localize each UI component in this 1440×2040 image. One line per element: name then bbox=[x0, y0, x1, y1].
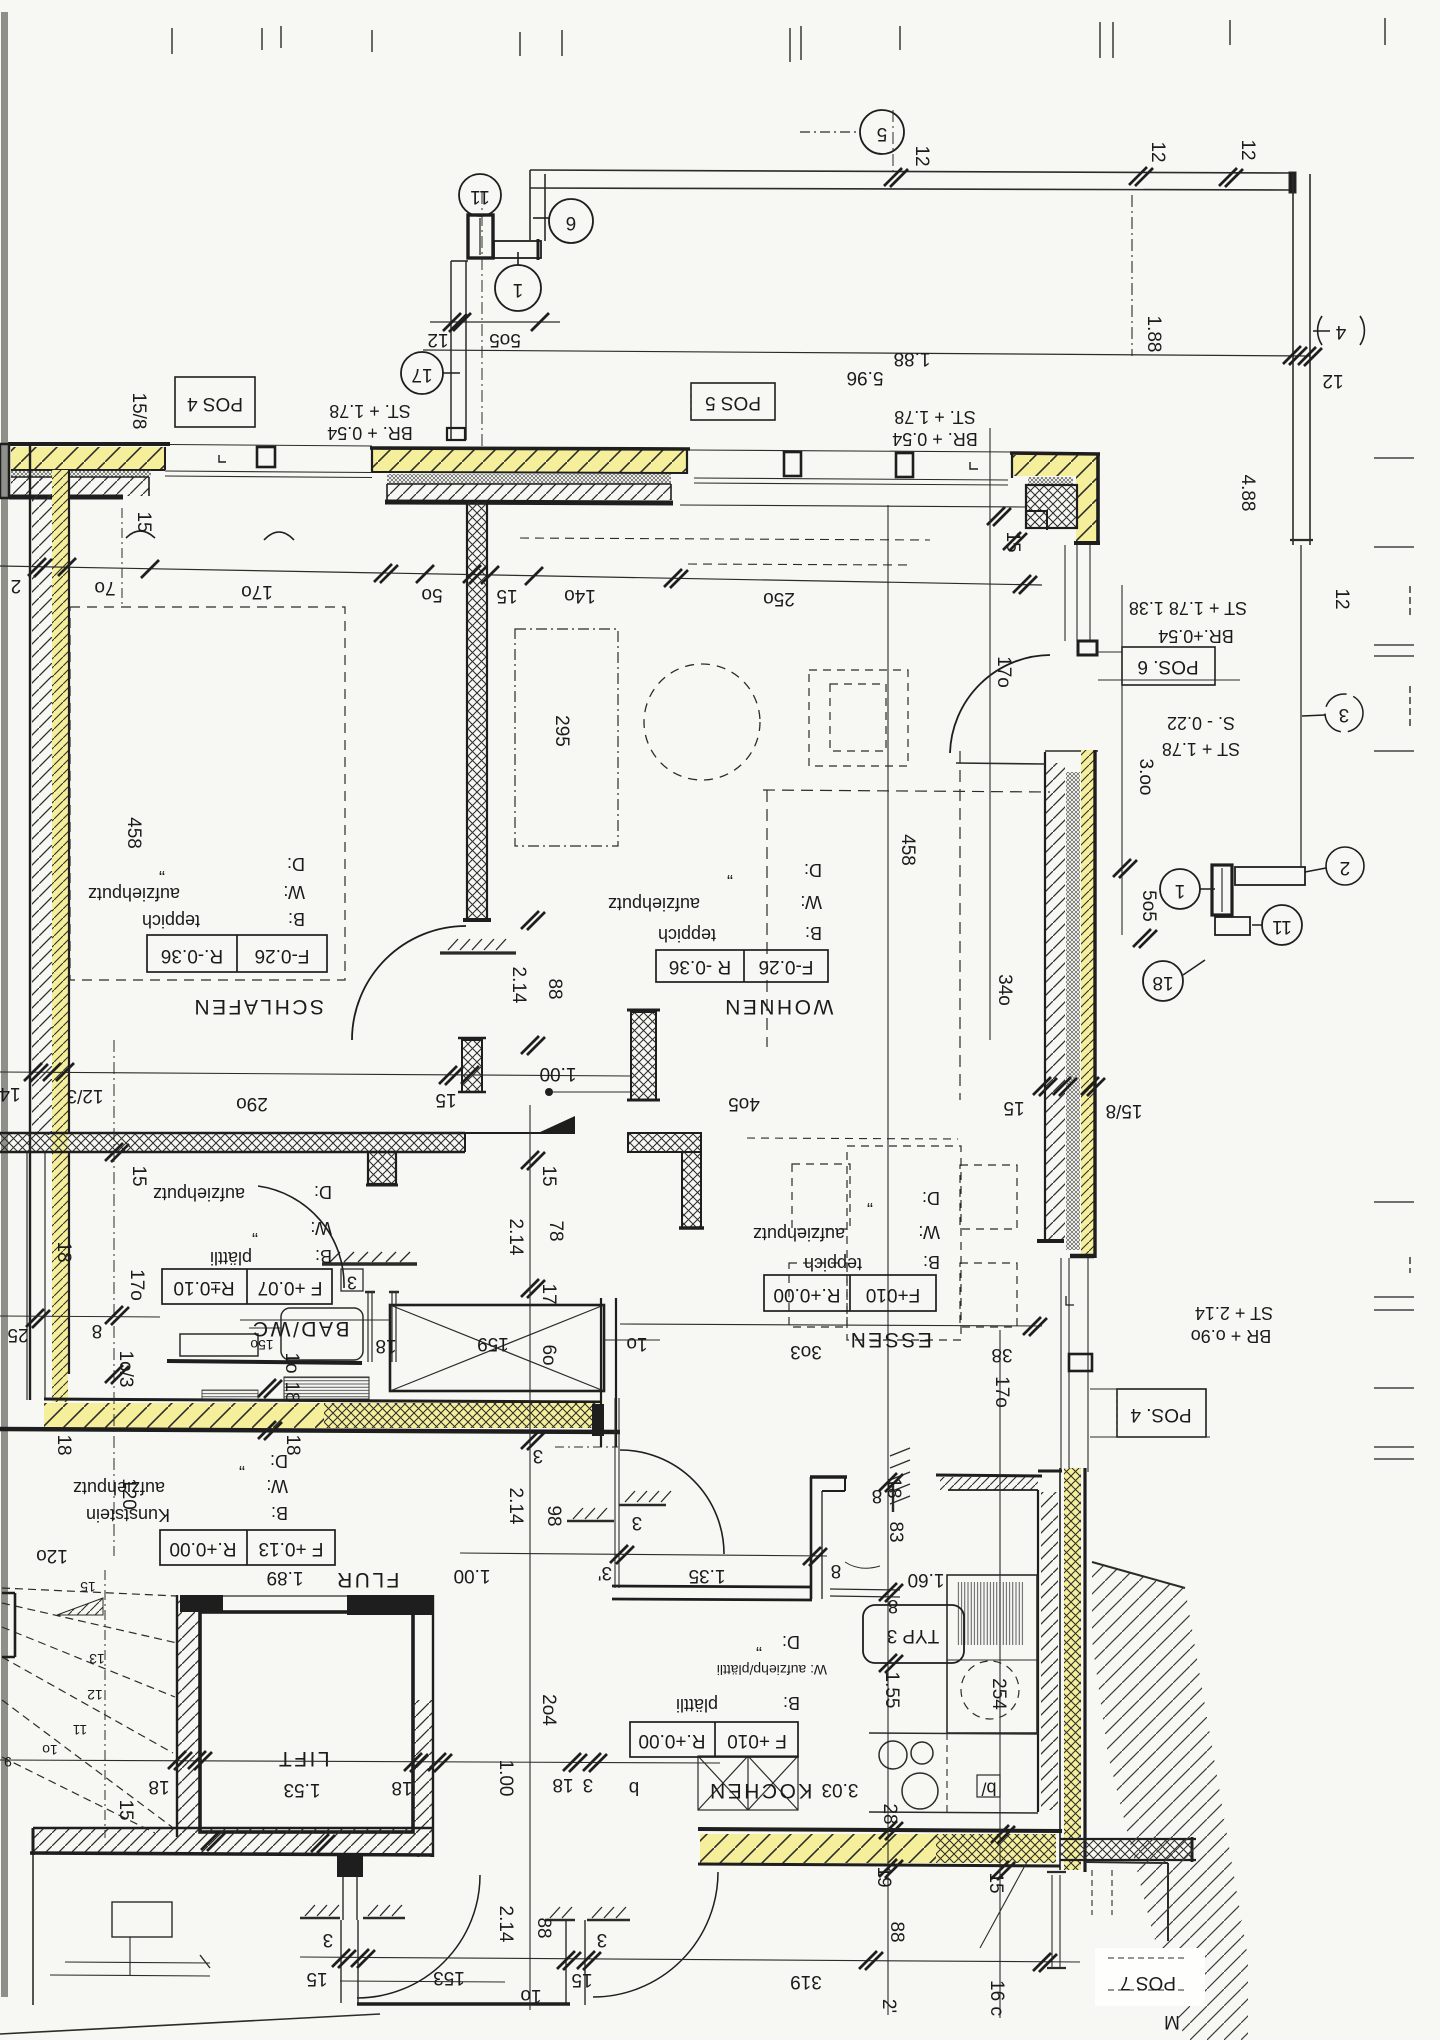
svg-text:TYP 3: TYP 3 bbox=[887, 1625, 939, 1646]
stair step numbers bbox=[4, 1579, 105, 1770]
POS 7 dashed bbox=[1108, 1958, 1188, 1990]
svg-text:5.96: 5.96 bbox=[847, 367, 884, 388]
crosshatch corner extension SE bbox=[1060, 1837, 1196, 1941]
svg-text:4.88: 4.88 bbox=[1237, 475, 1258, 512]
bottom door jambs bbox=[341, 1920, 585, 2005]
svg-text:F +010: F +010 bbox=[727, 1730, 787, 1751]
circle 1 right bbox=[1160, 869, 1200, 909]
458 dim WOHNEN bbox=[887, 505, 889, 2015]
svg-text:17: 17 bbox=[538, 1283, 559, 1304]
svg-text:D:: D: bbox=[922, 1188, 940, 1208]
svg-text:W:: W: bbox=[283, 882, 305, 902]
svg-text:W:: W: bbox=[918, 1222, 940, 1242]
svg-text:1: 1 bbox=[1175, 880, 1186, 901]
corridor door arc bbox=[620, 1450, 724, 1554]
svg-text:aufziehputz: aufziehputz bbox=[153, 1184, 245, 1204]
stair direction mark bbox=[57, 1598, 103, 1615]
BAD door jambs bbox=[365, 1292, 399, 1362]
svg-text:M: M bbox=[1164, 2011, 1180, 2032]
svg-text:12: 12 bbox=[1322, 370, 1343, 391]
svg-text:F +0.13: F +0.13 bbox=[259, 1538, 324, 1559]
schlafen door arc bbox=[352, 926, 466, 1040]
svg-text:”: ” bbox=[756, 1634, 762, 1654]
svg-text:”: ” bbox=[239, 1453, 245, 1473]
corner mark 2 bbox=[970, 462, 978, 469]
diagonal leader bottom bbox=[980, 1860, 1028, 1948]
svg-text:ESSEN: ESSEN bbox=[848, 1328, 932, 1351]
svg-text:458: 458 bbox=[123, 817, 144, 849]
svg-text:aufziehputz: aufziehputz bbox=[88, 884, 180, 904]
circle 3 right bbox=[1325, 694, 1363, 732]
door opening sill line bbox=[1045, 750, 1098, 752]
svg-text:POS 5: POS 5 bbox=[705, 392, 761, 413]
svg-text:WOHNEN: WOHNEN bbox=[723, 995, 834, 1018]
door frame below corner bbox=[1065, 545, 1090, 641]
window band east bbox=[1061, 1258, 1088, 1472]
svg-text:aufziehputz: aufziehputz bbox=[73, 1478, 165, 1498]
POS 4 box top-left bbox=[175, 377, 255, 427]
b/ box bbox=[977, 1775, 1000, 1797]
BAD WC bbox=[180, 1334, 258, 1356]
svg-text:12o: 12o bbox=[36, 1545, 68, 1566]
threshold hatches corridor bbox=[567, 1491, 671, 1521]
svg-text:POS 4: POS 4 bbox=[187, 393, 243, 414]
svg-text:LIFT: LIFT bbox=[276, 1747, 329, 1770]
svg-text:F-0.26: F-0.26 bbox=[255, 945, 310, 966]
circle 11 top bbox=[459, 174, 501, 216]
svg-text:F+010: F+010 bbox=[866, 1284, 920, 1305]
stairhall door arc left bbox=[357, 1875, 480, 1998]
circle 11 right bbox=[1262, 905, 1302, 945]
hob circles bbox=[879, 1741, 907, 1769]
svg-text:12: 12 bbox=[427, 329, 448, 350]
svg-text:17o: 17o bbox=[241, 581, 273, 602]
svg-text:15/8: 15/8 bbox=[128, 393, 149, 430]
svg-text:19: 19 bbox=[873, 1866, 894, 1887]
svg-text:3: 3 bbox=[632, 1512, 643, 1533]
svg-text:12: 12 bbox=[1331, 588, 1352, 609]
entrance door arc bbox=[950, 655, 1050, 753]
circle 6 bbox=[549, 199, 593, 243]
BAD door arc bbox=[258, 1186, 344, 1288]
svg-text:12: 12 bbox=[1147, 141, 1168, 162]
crosshatch block corner bbox=[1026, 485, 1077, 530]
svg-text:159: 159 bbox=[477, 1333, 509, 1354]
svg-text:12: 12 bbox=[1237, 139, 1258, 160]
svg-text:7o: 7o bbox=[94, 577, 115, 598]
svg-text:aufziehputz: aufziehputz bbox=[753, 1224, 845, 1244]
svg-text:R.+0.00: R.+0.00 bbox=[638, 1730, 705, 1751]
svg-text:6o: 6o bbox=[538, 1344, 559, 1365]
insulation strip NW bbox=[11, 470, 151, 477]
svg-text:B:: B: bbox=[783, 1693, 800, 1713]
svg-text:12: 12 bbox=[87, 1687, 103, 1703]
svg-text:2.14: 2.14 bbox=[495, 1906, 516, 1943]
schlafen door threshold hatch bbox=[440, 939, 516, 953]
svg-text:ST. + 1.78: ST. + 1.78 bbox=[894, 407, 976, 427]
svg-text:1.00: 1.00 bbox=[454, 1565, 491, 1586]
corner mark bbox=[219, 455, 226, 462]
svg-text:9: 9 bbox=[4, 1754, 12, 1770]
svg-text:”: ” bbox=[867, 1190, 873, 1210]
dash-dot line to wall bbox=[555, 1446, 618, 1448]
svg-text:18: 18 bbox=[375, 1335, 396, 1356]
svg-text:18: 18 bbox=[391, 1777, 412, 1798]
svg-text:15: 15 bbox=[538, 1165, 559, 1186]
dim line y1074 bbox=[0, 1072, 630, 1076]
svg-text:2: 2 bbox=[11, 575, 22, 596]
right dim verticals bbox=[1131, 195, 1133, 356]
top page tick marks bbox=[172, 18, 1385, 62]
svg-text:11: 11 bbox=[470, 186, 490, 207]
POS 5 box bbox=[691, 383, 775, 420]
svg-text:2.14: 2.14 bbox=[505, 1488, 526, 1525]
svg-text:4: 4 bbox=[1335, 321, 1346, 342]
svg-text:29o: 29o bbox=[236, 1093, 268, 1114]
3.oo dim bbox=[1121, 585, 1123, 935]
svg-text:1.89: 1.89 bbox=[267, 1567, 304, 1588]
svg-text:aufziehputz: aufziehputz bbox=[608, 894, 700, 914]
svg-text:FLUR: FLUR bbox=[335, 1568, 400, 1591]
window frame square east bbox=[1069, 1354, 1092, 1371]
window frame square small above wall bbox=[447, 428, 465, 440]
BAD south wall inner line bbox=[167, 1361, 362, 1363]
svg-text:17o: 17o bbox=[126, 1269, 147, 1301]
svg-text:8: 8 bbox=[92, 1320, 103, 1341]
svg-text:R -0.36: R -0.36 bbox=[669, 956, 731, 977]
lift dim line bbox=[0, 1760, 720, 1763]
svg-text:b: b bbox=[629, 1777, 640, 1798]
svg-text:1.00: 1.00 bbox=[540, 1063, 577, 1084]
door hinge post bbox=[1078, 641, 1097, 655]
svg-text:”: ” bbox=[159, 858, 165, 878]
svg-text:14: 14 bbox=[0, 1083, 21, 1104]
svg-text:D:: D: bbox=[314, 1182, 332, 1202]
svg-text:B:: B: bbox=[315, 1246, 332, 1266]
svg-text:W: aufziehp/plättli: W: aufziehp/plättli bbox=[717, 1662, 827, 1678]
svg-text:18: 18 bbox=[53, 1434, 74, 1455]
svg-text:17o: 17o bbox=[991, 1376, 1012, 1408]
svg-text:3.03: 3.03 bbox=[822, 1779, 859, 1800]
svg-text:1: 1 bbox=[513, 279, 524, 300]
bottom-left fragment bbox=[50, 1902, 210, 1976]
inner wall leaf NW hatched bbox=[9, 477, 149, 497]
svg-text:12/3: 12/3 bbox=[67, 1085, 104, 1106]
svg-text:BR + o.9o: BR + o.9o bbox=[1191, 1326, 1272, 1346]
circle 5 bbox=[860, 110, 904, 154]
svg-text:15: 15 bbox=[985, 1872, 1006, 1893]
svg-text:W:: W: bbox=[310, 1218, 332, 1238]
circle (4) bbox=[1318, 316, 1365, 345]
svg-text:38: 38 bbox=[991, 1344, 1012, 1365]
svg-text:18: 18 bbox=[552, 1774, 573, 1795]
svg-text:1o: 1o bbox=[626, 1333, 647, 1354]
svg-text:319: 319 bbox=[790, 1971, 822, 1992]
dim line 5o5/12 bbox=[430, 321, 560, 323]
window frame square bbox=[257, 447, 275, 467]
svg-text:5o: 5o bbox=[421, 584, 442, 605]
corridor dims bbox=[460, 1553, 827, 1556]
BAD door leaf bbox=[322, 1252, 417, 1264]
svg-text:2.14: 2.14 bbox=[508, 967, 529, 1004]
svg-text:1.35: 1.35 bbox=[689, 1565, 726, 1586]
hall wall stub A bbox=[627, 1010, 660, 1100]
long dim line y352 bbox=[423, 350, 1310, 356]
svg-text:15o: 15o bbox=[250, 1337, 274, 1353]
svg-text:16 c: 16 c bbox=[986, 1980, 1007, 2016]
svg-text:1.53: 1.53 bbox=[284, 1779, 321, 1800]
left edge wall stub bbox=[0, 444, 9, 498]
svg-text:”: ” bbox=[252, 1220, 258, 1240]
essen dim line bbox=[620, 1324, 1042, 1326]
svg-text:15: 15 bbox=[128, 1165, 149, 1186]
bottom sloped edge line bbox=[0, 2014, 380, 2034]
svg-text:R.-0.36: R.-0.36 bbox=[161, 945, 223, 966]
svg-text:3.oo: 3.oo bbox=[1135, 759, 1156, 796]
svg-text:1o: 1o bbox=[42, 1742, 58, 1758]
svg-text:D:: D: bbox=[270, 1451, 288, 1471]
svg-text:teppich: teppich bbox=[658, 925, 716, 945]
svg-text:4o5: 4o5 bbox=[728, 1093, 760, 1114]
insulation strip N2 bbox=[387, 474, 671, 484]
svg-text:3: 3 bbox=[597, 1929, 608, 1950]
svg-text:D:: D: bbox=[287, 854, 305, 874]
svg-text:15: 15 bbox=[115, 1799, 136, 1820]
svg-text:S. - 0.22: S. - 0.22 bbox=[1167, 713, 1235, 733]
svg-text:3: 3 bbox=[323, 1929, 334, 1950]
svg-text:88: 88 bbox=[544, 978, 565, 999]
svg-text:3: 3 bbox=[533, 1445, 544, 1466]
svg-text:2': 2' bbox=[878, 1999, 899, 2013]
svg-text:”: ” bbox=[727, 862, 733, 882]
svg-text:15: 15 bbox=[1002, 531, 1023, 552]
BAD left dim column bbox=[113, 1040, 115, 1556]
svg-text:254: 254 bbox=[988, 1678, 1009, 1710]
svg-text:1.60: 1.60 bbox=[908, 1569, 945, 1590]
svg-text:25: 25 bbox=[7, 1324, 28, 1345]
svg-text:BR. + 0.54: BR. + 0.54 bbox=[892, 429, 978, 449]
svg-text:15: 15 bbox=[496, 585, 517, 606]
svg-text:ST + 2.14: ST + 2.14 bbox=[1195, 1303, 1273, 1323]
svg-text:F-0.26: F-0.26 bbox=[759, 956, 814, 977]
svg-text:1.88: 1.88 bbox=[894, 348, 931, 369]
svg-text:15: 15 bbox=[306, 1968, 327, 1989]
svg-text:78: 78 bbox=[545, 1220, 566, 1241]
svg-text:18: 18 bbox=[281, 1381, 302, 1402]
SCHLAFEN dashed rect bbox=[70, 607, 345, 980]
svg-text:88: 88 bbox=[886, 1921, 907, 1942]
niche line right of ESSEN bbox=[956, 763, 1045, 764]
svg-text:5o5: 5o5 bbox=[1138, 890, 1159, 922]
svg-text:3: 3 bbox=[1339, 704, 1350, 725]
right edge marks bbox=[1374, 458, 1414, 1459]
svg-text:SCHLAFEN: SCHLAFEN bbox=[192, 995, 324, 1018]
svg-text:6: 6 bbox=[566, 212, 577, 233]
window frame squares band2 bbox=[784, 452, 801, 476]
svg-text:KOCHEN: KOCHEN bbox=[708, 1779, 813, 1802]
svg-text:B:: B: bbox=[271, 1503, 288, 1523]
wall band yellow NW bbox=[8, 444, 170, 470]
svg-text:153: 153 bbox=[433, 1967, 465, 1988]
svg-text:F +0.07: F +0.07 bbox=[258, 1277, 323, 1298]
hall dims bbox=[521, 1151, 545, 1170]
KUECHE NORTH WALL bbox=[936, 1475, 1042, 1490]
svg-text:15: 15 bbox=[1003, 1097, 1024, 1118]
svg-text:15: 15 bbox=[133, 511, 154, 532]
svg-text:3': 3' bbox=[598, 1562, 612, 1583]
small vent arcs top wall bbox=[126, 531, 155, 538]
svg-text:88: 88 bbox=[533, 1917, 554, 1938]
corner mark east bbox=[1066, 1296, 1074, 1305]
svg-text:2.14: 2.14 bbox=[505, 1219, 526, 1256]
svg-text:15: 15 bbox=[571, 1969, 592, 1990]
svg-text:83: 83 bbox=[885, 1521, 906, 1542]
svg-text:R.+0.00: R.+0.00 bbox=[773, 1284, 840, 1305]
corner dim 15 ticks bbox=[987, 507, 1011, 526]
TYP 3 box bbox=[863, 1605, 964, 1663]
svg-text:Kunststein: Kunststein bbox=[86, 1505, 170, 1525]
svg-text:458: 458 bbox=[897, 834, 918, 866]
svg-text:BR.+0.54: BR.+0.54 bbox=[1158, 626, 1234, 646]
svg-text:b/: b/ bbox=[981, 1778, 996, 1798]
svg-text:B:: B: bbox=[923, 1252, 940, 1272]
svg-text:W:: W: bbox=[266, 1476, 288, 1496]
svg-text:3: 3 bbox=[583, 1774, 594, 1795]
svg-text:3: 3 bbox=[347, 1272, 357, 1292]
insulation strip corner bbox=[1028, 477, 1073, 485]
svg-text:1o: 1o bbox=[281, 1352, 302, 1373]
svg-text:14o: 14o bbox=[564, 585, 596, 606]
right side dim column x990 bbox=[989, 428, 991, 1040]
svg-text:5: 5 bbox=[877, 123, 888, 144]
svg-text:13: 13 bbox=[89, 1651, 105, 1667]
stair dimension line bbox=[104, 1570, 106, 1838]
kueche dim col ticks bbox=[879, 1473, 903, 1492]
dashed circle 254 bbox=[961, 1661, 1019, 1719]
sink unit bbox=[947, 1575, 1037, 1733]
svg-text:POS 7: POS 7 bbox=[1120, 1972, 1176, 1993]
svg-text:D:: D: bbox=[804, 860, 822, 880]
svg-text:15: 15 bbox=[435, 1089, 456, 1110]
FLUR/KUECHE divider wall bbox=[612, 1586, 812, 1600]
svg-text:25o: 25o bbox=[763, 588, 795, 609]
svg-text:17o: 17o bbox=[993, 656, 1014, 688]
left wall below bbox=[32, 1855, 34, 2005]
entrance arrow bbox=[420, 1116, 575, 1133]
svg-text:18: 18 bbox=[148, 1776, 169, 1797]
svg-text:D:: D: bbox=[782, 1632, 800, 1652]
bottom door threshold hatches bbox=[300, 1905, 630, 1920]
svg-text:1.88: 1.88 bbox=[1143, 316, 1164, 353]
pocket door leaf BAD/FLUR bbox=[202, 1377, 369, 1401]
svg-text:15: 15 bbox=[80, 1579, 96, 1595]
bottom door sill thick bbox=[357, 2002, 570, 2005]
pier below band bbox=[366, 1152, 398, 1185]
svg-text:R±0.10: R±0.10 bbox=[173, 1277, 234, 1298]
svg-text:R.+0.00: R.+0.00 bbox=[169, 1538, 236, 1559]
svg-text:17: 17 bbox=[411, 364, 432, 385]
svg-text:B:: B: bbox=[805, 923, 822, 943]
door jamb stems bbox=[343, 1877, 357, 1920]
svg-text:teppich: teppich bbox=[804, 1254, 862, 1274]
svg-text:5o5: 5o5 bbox=[489, 329, 521, 350]
svg-text:plättli: plättli bbox=[676, 1695, 718, 1715]
svg-text:98: 98 bbox=[543, 1505, 564, 1526]
scan edge strip left bbox=[1, 12, 8, 1997]
svg-text:1o: 1o bbox=[520, 1985, 541, 2006]
circle 2 right bbox=[1326, 847, 1364, 885]
svg-text:18: 18 bbox=[53, 1241, 74, 1262]
left edge bracket stair bbox=[2, 1593, 15, 1657]
circle 18 right bbox=[1143, 961, 1183, 1001]
svg-text:plättli: plättli bbox=[210, 1248, 252, 1268]
vent pipe symbol bbox=[1047, 1872, 1066, 1968]
threshold box 3 BAD bbox=[341, 1269, 363, 1291]
window band 1 north bbox=[165, 445, 372, 478]
svg-text:11: 11 bbox=[73, 1722, 88, 1738]
counter dashed bbox=[946, 1733, 948, 1812]
wall band yellow N2 bbox=[370, 448, 690, 474]
svg-text:teppich: teppich bbox=[142, 911, 200, 931]
wall stub below door bbox=[458, 1038, 486, 1092]
chimney top-left bbox=[451, 215, 541, 440]
svg-text:12: 12 bbox=[911, 145, 932, 166]
svg-text:ST + 1.78: ST + 1.78 bbox=[1162, 739, 1240, 759]
svg-text:ST + 1.78 1.38: ST + 1.78 1.38 bbox=[1129, 598, 1247, 618]
svg-text:18: 18 bbox=[1152, 972, 1173, 993]
chimney right bbox=[1212, 865, 1305, 935]
svg-text:2o4: 2o4 bbox=[538, 1694, 559, 1726]
shelf double lines bbox=[830, 1589, 900, 1597]
svg-text:34o: 34o bbox=[994, 974, 1015, 1006]
hall wall stub B corner bbox=[628, 1133, 704, 1228]
svg-text:11: 11 bbox=[1272, 916, 1292, 937]
svg-text:W:: W: bbox=[800, 892, 822, 912]
svg-text:BAD/WC: BAD/WC bbox=[251, 1317, 350, 1340]
svg-text:POS. 4: POS. 4 bbox=[1130, 1404, 1192, 1425]
svg-text:POS. 6: POS. 6 bbox=[1137, 656, 1198, 677]
BAD washbasin bbox=[281, 1308, 363, 1360]
svg-text:2: 2 bbox=[1340, 857, 1351, 878]
pier below lift wall bbox=[337, 1855, 363, 1877]
svg-text:3o3: 3o3 bbox=[790, 1341, 822, 1362]
circle 17 bbox=[401, 352, 443, 394]
svg-text:1.00: 1.00 bbox=[495, 1760, 516, 1797]
stairhall door arc right bbox=[593, 1872, 718, 1997]
svg-text:ST. + 1.78: ST. + 1.78 bbox=[329, 401, 411, 421]
svg-text:18: 18 bbox=[883, 1477, 904, 1498]
svg-text:15/8: 15/8 bbox=[1106, 1100, 1143, 1121]
svg-text:1.55: 1.55 bbox=[881, 1672, 902, 1709]
LIFT south wall band bbox=[30, 1828, 433, 1855]
inner wall leaf N2 hatched bbox=[385, 484, 673, 503]
opening hatch marks kueche bbox=[890, 1448, 910, 1512]
svg-text:8: 8 bbox=[831, 1560, 842, 1581]
circle 1 bbox=[495, 265, 541, 311]
svg-text:B:: B: bbox=[288, 909, 305, 929]
window band 2 north bbox=[680, 450, 1026, 507]
kueche west niche wall bbox=[810, 1477, 847, 1599]
svg-text:295: 295 bbox=[551, 715, 572, 747]
svg-text:BR. + 0.54: BR. + 0.54 bbox=[327, 423, 413, 443]
X cabinets bbox=[698, 1756, 798, 1810]
